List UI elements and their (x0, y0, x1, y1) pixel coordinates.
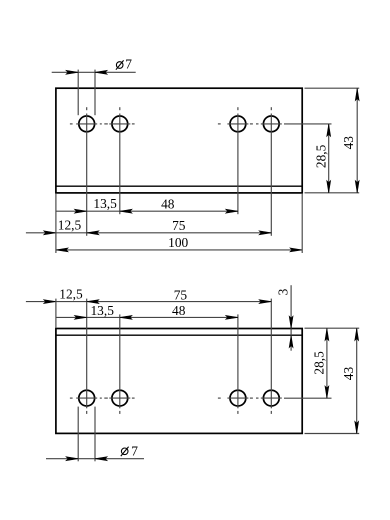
hole H5 (bottom view) (79, 390, 95, 406)
label diameter 7 (top view) (116, 60, 124, 69)
extension line hole axis right (bottom view) (284, 397, 332, 399)
svg-text:7: 7 (125, 57, 132, 72)
dimension 28,5 line (bottom view) (326, 328, 328, 398)
hole H3 centerlines (218, 107, 249, 214)
extension line left edge (bottom view) (55, 299, 57, 328)
svg-text:43: 43 (341, 136, 356, 150)
svg-text:28,5: 28,5 (314, 144, 329, 168)
extension line right edge (top view) (301, 194, 303, 253)
dimension 3 line (bottom view) (290, 285, 292, 351)
svg-text:7: 7 (131, 444, 138, 459)
hole H1 centerlines (70, 107, 97, 236)
plate outline (bottom view) (56, 329, 302, 434)
svg-text:48: 48 (172, 303, 186, 318)
svg-text:75: 75 (172, 218, 186, 233)
dimension row 12,5 / 75 line (bottom view) (26, 301, 271, 303)
svg-text:13,5: 13,5 (90, 303, 114, 318)
hole H8 (bottom view) (263, 390, 279, 406)
hole H8 centerlines (250, 299, 282, 414)
svg-text:75: 75 (174, 287, 188, 302)
svg-text:12,5: 12,5 (58, 217, 82, 232)
dimension 43 line (top view) (356, 88, 358, 192)
extension line plate top right (bottom view) (305, 327, 360, 329)
svg-text:48: 48 (161, 196, 175, 211)
hole H5 centerlines (70, 299, 97, 414)
hole H6 centerlines (100, 314, 135, 414)
svg-text:3: 3 (276, 288, 291, 295)
dimension D7 leader (top view) (52, 70, 136, 116)
svg-text:13,5: 13,5 (93, 196, 117, 211)
extension line hole axis right (top view) (284, 123, 332, 125)
hole H2 centerlines (100, 107, 135, 214)
svg-text:12,5: 12,5 (59, 287, 83, 302)
plate outline (top view) (56, 88, 302, 193)
hole H1 (top view) (79, 116, 95, 132)
dimension row 100 line (top view) (56, 249, 302, 251)
dimension row 13,5 / 48 line (bottom view) (56, 316, 238, 318)
extension line plate bottom right (top view) (305, 192, 360, 194)
hole H2 (top view) (112, 116, 128, 132)
svg-text:28,5: 28,5 (312, 351, 327, 375)
extension line plate top right (top view) (305, 87, 360, 89)
extension line left edge (top view) (55, 194, 57, 253)
hole H6 (bottom view) (112, 390, 128, 406)
hole H3 (top view) (230, 116, 246, 132)
dimension 28,5 line (top view) (328, 124, 330, 193)
label diameter 7 (bottom view) (121, 447, 129, 456)
hole H4 (top view) (263, 116, 279, 132)
svg-text:43: 43 (341, 367, 356, 381)
plate inner fold line (top view) (56, 185, 302, 187)
dimension D7 leader (bottom view) (46, 407, 144, 462)
extension line plate bottom right (bottom view) (305, 433, 360, 435)
plate inner fold line (bottom view) (56, 334, 302, 336)
svg-text:100: 100 (168, 235, 188, 250)
hole H7 centerlines (218, 314, 249, 414)
hole H4 centerlines (250, 107, 282, 236)
dimension row 12,5 / 75 line (top view) (26, 232, 271, 234)
dimension 43 line (bottom view) (356, 328, 358, 433)
hole H7 (bottom view) (230, 390, 246, 406)
dimension row 13,5 / 48 line (top view) (56, 210, 238, 212)
